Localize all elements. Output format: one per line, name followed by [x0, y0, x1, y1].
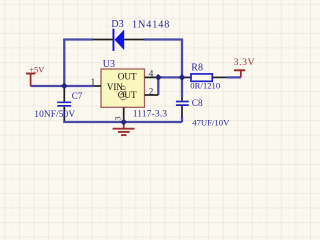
wire top horizontal right of D3: [144, 38, 183, 40]
capacitor C8 plates: [176, 102, 189, 106]
svg-text:R8: R8: [191, 63, 203, 74]
wire C8 column upper: [181, 77, 183, 97]
diode D3 cathode bar: [113, 29, 115, 51]
capacitor C8 bottom pin: [181, 106, 183, 117]
svg-text:3.3V: 3.3V: [234, 58, 255, 68]
junction node at pin4/link: [155, 74, 162, 81]
svg-text:C7: C7: [72, 91, 83, 101]
junction node at +5V/C7: [61, 83, 68, 90]
svg-text:U3: U3: [103, 59, 115, 70]
svg-text:0R/1210: 0R/1210: [190, 81, 221, 91]
svg-text:1N4148: 1N4148: [132, 20, 170, 31]
wire right vertical (top loop): [181, 39, 183, 78]
svg-text:2: 2: [149, 88, 154, 98]
resistor R8 left pin: [185, 76, 191, 78]
capacitor C7 bottom pin: [63, 107, 65, 121]
svg-text:GND: GND: [119, 85, 127, 100]
wire R8 to 3.3V port: [227, 76, 241, 78]
junction node at GND rail: [120, 119, 127, 126]
wire top-left vertical: [63, 39, 65, 87]
svg-text:1: 1: [90, 77, 95, 88]
wire +5V row: [31, 85, 94, 87]
capacitor C7 top pin: [63, 86, 65, 101]
diode D3 left pin: [93, 39, 113, 41]
wire pin4 row junction link: [158, 76, 185, 78]
ground symbol stem: [123, 122, 125, 128]
ground symbol bar 3: [121, 134, 126, 136]
power +5V stem: [30, 74, 32, 87]
capacitor C7 plates: [57, 102, 71, 106]
power +5V bar: [26, 73, 35, 75]
power 3.3V stem: [240, 70, 242, 77]
svg-text:4: 4: [149, 69, 154, 79]
U3 pin 3 line: [123, 107, 125, 121]
diode D3 right pin: [124, 39, 144, 41]
svg-text:C8: C8: [192, 99, 203, 109]
wire vertical pin4-pin2 link: [157, 77, 159, 95]
U3 pin 4 line: [145, 76, 159, 78]
power 3.3V bar: [234, 69, 245, 71]
junction node at pin4/C8 column: [179, 74, 186, 81]
capacitor C8 top pin: [181, 98, 183, 101]
diode D3 triangle: [115, 30, 125, 51]
resistor R8 body: [191, 74, 212, 81]
IC U3 regulator body: [101, 69, 145, 107]
svg-text:OUT: OUT: [118, 72, 137, 82]
svg-text:47UF/10V: 47UF/10V: [192, 118, 230, 128]
svg-text:+5V: +5V: [29, 66, 44, 75]
U3 pin 2 line: [145, 94, 159, 96]
svg-text:10NF/50V: 10NF/50V: [34, 110, 75, 120]
wire top horizontal left of D3: [63, 38, 93, 40]
svg-text:D3: D3: [111, 19, 123, 30]
wire C8 column lower corner: [181, 117, 183, 123]
svg-text:1117-3.3: 1117-3.3: [133, 109, 168, 120]
ground symbol bar 2: [118, 131, 130, 133]
svg-text:3: 3: [112, 116, 122, 120]
U3 pin 1 line: [94, 85, 101, 87]
resistor R8 right pin: [212, 76, 226, 78]
ground symbol bar 1: [113, 128, 135, 130]
wire ground rail: [64, 121, 182, 122]
